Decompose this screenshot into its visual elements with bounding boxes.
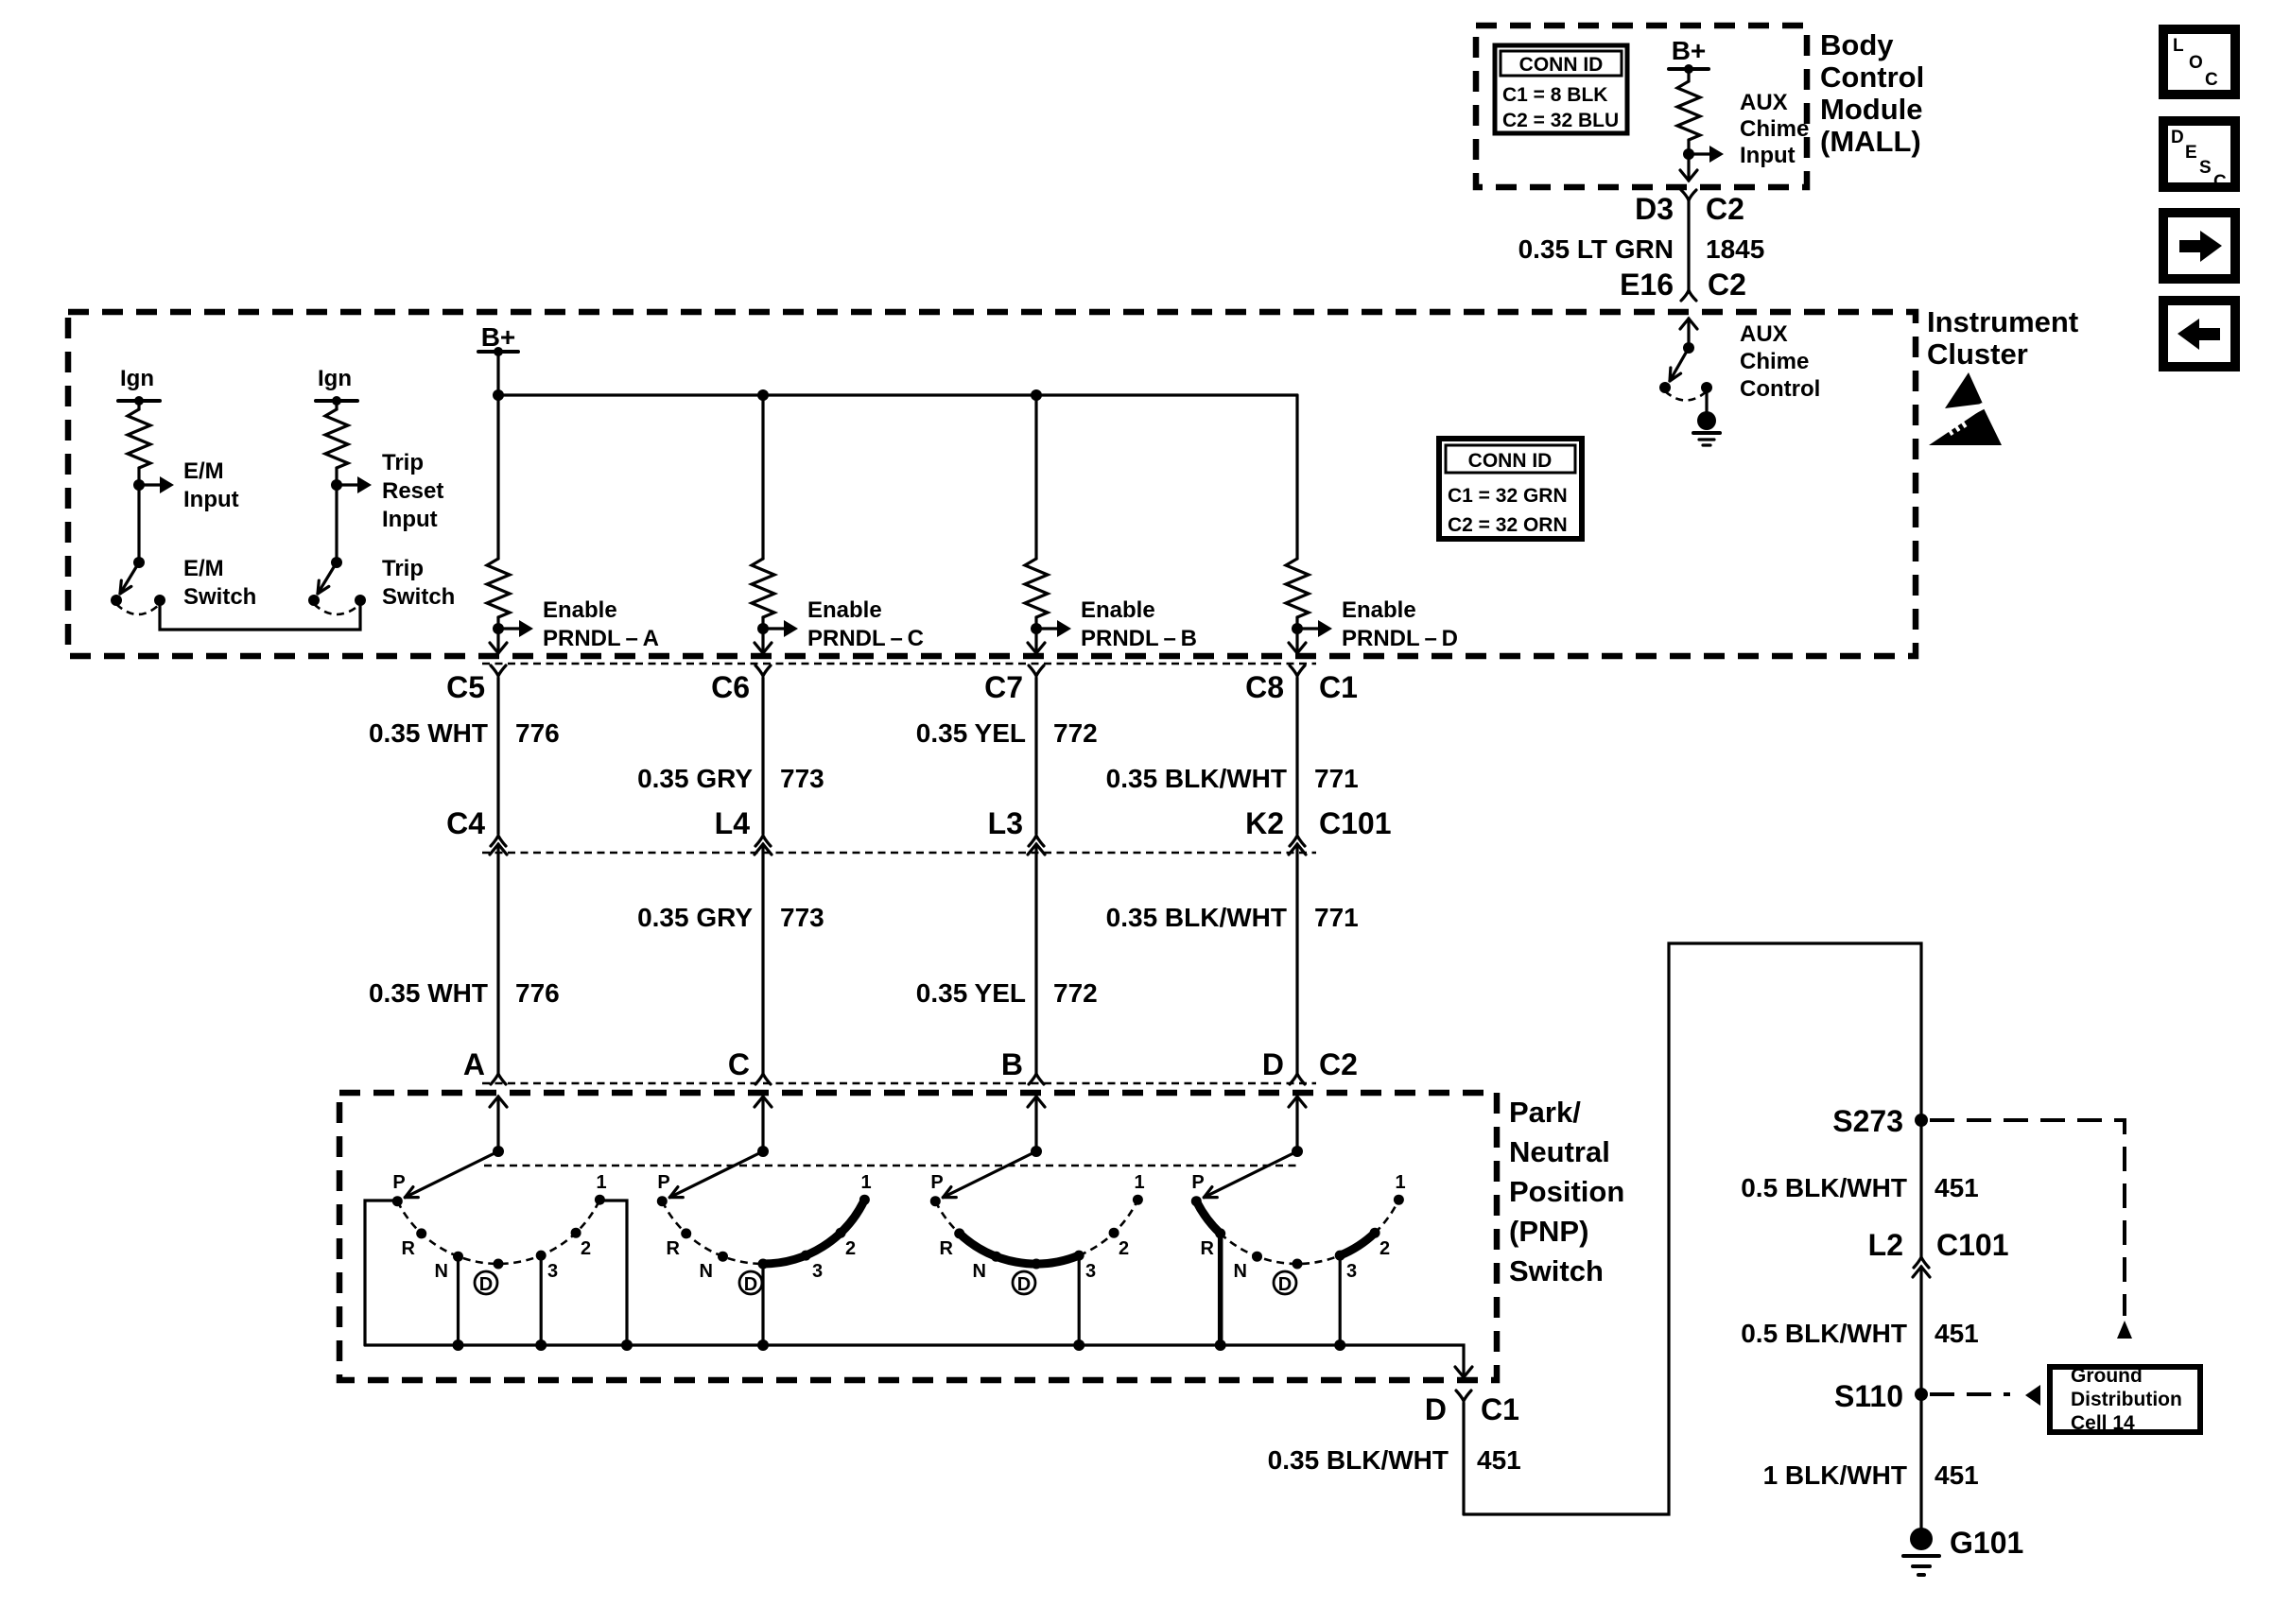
svg-text:C1 = 8 BLK: C1 = 8 BLK: [1502, 84, 1607, 106]
PNP rotary wafer B: input pin and wiper: [943, 1097, 1045, 1198]
connector row C2 (PNP switch): dashed line: [482, 1082, 1316, 1085]
PNP wafer A: P and 1 contact frame wires: [365, 1201, 399, 1345]
connector row C101 (inline): dashed line: [482, 852, 1316, 855]
svg-text:0.35 YEL: 0.35 YEL: [916, 978, 1026, 1008]
svg-text:0.35 YEL: 0.35 YEL: [916, 718, 1026, 748]
ESD sensitivity symbol: [1929, 372, 2002, 445]
wire 773: 0.35 GRY (lower): [637, 844, 824, 1075]
svg-text:N: N: [973, 1261, 986, 1282]
wire: bus drop to PRNDL-A resistor: [496, 395, 499, 559]
resistor: BCM aux chime pull-up: [1677, 81, 1700, 140]
wire 776: 0.35 WHT (lower): [369, 844, 560, 1075]
svg-text:C101: C101: [1936, 1228, 2009, 1262]
svg-text:C: C: [2205, 70, 2218, 90]
wire: wafer B contact 3 to common: [1078, 1255, 1081, 1345]
svg-text:PRNDL – C: PRNDL – C: [807, 626, 924, 651]
resistor: Trip reset pull-up: [325, 409, 348, 468]
svg-text:C1: C1: [1481, 1392, 1519, 1426]
wire: wafer A contact N to common: [457, 1256, 460, 1345]
svg-text:D: D: [1017, 1274, 1031, 1295]
connector pin C4 (C101): [446, 806, 507, 855]
cluster CONN ID table (C1=32 GRN, C2=32 ORN): [1439, 439, 1582, 539]
svg-text:B: B: [1001, 1047, 1023, 1081]
svg-text:K2: K2: [1245, 806, 1284, 840]
svg-text:R: R: [940, 1238, 954, 1259]
resistor: Enable PRNDL-A pull-up: [487, 559, 510, 617]
wire: B+ bus: [498, 393, 1297, 396]
svg-text:Instrument: Instrument: [1927, 305, 2078, 338]
svg-text:C1: C1: [1319, 670, 1358, 704]
wire: PRNDL-B to cluster connector: [1034, 629, 1037, 653]
svg-text:0.35 WHT: 0.35 WHT: [369, 718, 488, 748]
node: resistor output / AUX Chime Input pin: [1683, 148, 1694, 160]
PNP wafer D: contact arc: [1196, 1200, 1398, 1264]
svg-text:E: E: [2185, 143, 2197, 163]
svg-text:R: R: [667, 1238, 681, 1259]
wire 771: 0.35 BLK/WHT (upper): [1106, 678, 1359, 834]
connector pin L4 (C101): [715, 806, 772, 855]
resistor: Enable PRNDL-D pull-up: [1286, 559, 1309, 617]
connector pin C8 (C1): [1245, 665, 1305, 704]
Park/Neutral Position (PNP) Switch dashed box: [339, 1093, 1497, 1380]
svg-text:Trip: Trip: [382, 450, 424, 475]
B+ battery feed (cluster): [478, 322, 518, 395]
svg-text:L3: L3: [988, 806, 1023, 840]
svg-text:(MALL): (MALL): [1820, 125, 1921, 158]
svg-text:R: R: [1201, 1238, 1215, 1259]
AUX Chime Control switch: [1659, 321, 1820, 412]
left-arrow navigation box: [2163, 301, 2235, 367]
wiper pivot dashed link line: [484, 1165, 1297, 1167]
svg-text:1: 1: [860, 1172, 871, 1193]
node: PRNDL-B sense: [1031, 623, 1042, 634]
connector E16/C2 (wire-side fork, arms down): [1681, 290, 1696, 301]
svg-text:PRNDL – B: PRNDL – B: [1081, 626, 1197, 651]
svg-text:Position: Position: [1509, 1175, 1624, 1208]
svg-text:2: 2: [581, 1238, 591, 1259]
resistor: Enable PRNDL-B pull-up: [1025, 559, 1048, 617]
svg-text:773: 773: [780, 903, 824, 932]
svg-text:D: D: [1262, 1047, 1284, 1081]
wire: to Trip switch: [335, 485, 338, 562]
svg-text:771: 771: [1314, 764, 1359, 793]
PNP wafer B: contact arc: [935, 1200, 1137, 1264]
svg-text:Trip: Trip: [382, 556, 424, 581]
svg-text:C: C: [2213, 172, 2227, 192]
node S273: [1832, 1104, 1928, 1138]
svg-text:1: 1: [596, 1172, 606, 1193]
svg-text:Park/: Park/: [1509, 1096, 1581, 1129]
node: wafer D 3 common junction: [1334, 1339, 1345, 1351]
svg-text:771: 771: [1314, 903, 1359, 932]
resistor: E/M input pull-up: [128, 409, 150, 468]
svg-text:Ground: Ground: [2071, 1365, 2143, 1387]
svg-text:O: O: [2189, 53, 2203, 73]
svg-text:0.35 BLK/WHT: 0.35 BLK/WHT: [1106, 764, 1287, 793]
PNP wafer D: contacts P R N D 3 2 1: [1191, 1172, 1406, 1295]
svg-text:2: 2: [845, 1238, 856, 1259]
svg-text:E/M: E/M: [183, 556, 224, 581]
BCM CONN ID table (C1=8 BLK, C2=32 BLU): [1495, 45, 1627, 133]
svg-text:776: 776: [515, 718, 560, 748]
Enable PRNDL-B arrow: [1036, 597, 1197, 651]
svg-text:N: N: [700, 1261, 713, 1282]
node: wafer A N common junction: [453, 1339, 464, 1351]
svg-text:C2 = 32 BLU: C2 = 32 BLU: [1502, 110, 1619, 131]
PNP wafer C: contact arc: [662, 1200, 864, 1264]
svg-text:P: P: [657, 1172, 669, 1193]
label: Instrument Cluster: [1927, 305, 2078, 371]
svg-text:D: D: [479, 1274, 493, 1295]
connector E16/C2 (cluster-side pin, chevron up): [1680, 319, 1697, 329]
wire: wafer C contact D to common: [761, 1264, 764, 1345]
connector pin C5 (C1): [446, 665, 506, 704]
svg-text:D: D: [1425, 1392, 1447, 1426]
resistor: Enable PRNDL-C pull-up: [752, 559, 774, 617]
svg-text:B+: B+: [1672, 36, 1707, 65]
connector pin L3 (C101): [988, 806, 1045, 855]
svg-text:L2: L2: [1868, 1228, 1903, 1262]
svg-text:C2: C2: [1708, 268, 1746, 302]
right-arrow navigation box: [2163, 213, 2235, 279]
connector pin D (PNP C2): [1262, 1047, 1305, 1084]
svg-text:772: 772: [1053, 978, 1098, 1008]
DESC page-reference box: [2163, 121, 2235, 192]
svg-text:Input: Input: [183, 487, 239, 512]
wire 451: 0.35 BLK/WHT from PNP D: [1268, 1403, 1521, 1514]
svg-text:P: P: [1191, 1172, 1204, 1193]
connector pin C (PNP C2): [728, 1047, 771, 1084]
svg-text:N: N: [435, 1261, 448, 1282]
wire 773: 0.35 GRY (upper): [637, 678, 824, 834]
AUX Chime Input arrow: [1689, 90, 1809, 168]
B+ battery feed (BCM): [1669, 36, 1709, 81]
svg-text:2: 2: [1119, 1238, 1129, 1259]
connector D/C1 (PNP output): [1425, 1391, 1519, 1426]
wire 772: 0.35 YEL (upper): [916, 678, 1098, 834]
wire: PRNDL-A to cluster connector: [496, 629, 499, 653]
svg-text:0.5 BLK/WHT: 0.5 BLK/WHT: [1741, 1319, 1907, 1348]
connector pin C6 (C1): [711, 665, 771, 704]
svg-text:Distribution: Distribution: [2071, 1389, 2182, 1410]
svg-text:E/M: E/M: [183, 458, 224, 484]
svg-text:0.35 BLK/WHT: 0.35 BLK/WHT: [1268, 1445, 1449, 1475]
svg-text:451: 451: [1935, 1173, 1979, 1202]
E/M Input arrow: [139, 458, 239, 512]
PNP wafer A: contacts P R N D 3 2 1: [392, 1172, 607, 1295]
PNP wafer B: contacts P R N D 3 2 1: [930, 1172, 1145, 1295]
svg-text:Body: Body: [1820, 28, 1894, 61]
svg-text:1845: 1845: [1706, 234, 1764, 264]
wire: bus drop to PRNDL-B resistor: [1034, 395, 1037, 559]
node S110: [1834, 1379, 1928, 1413]
svg-text:1: 1: [1134, 1172, 1144, 1193]
connector pin B (PNP C2): [1001, 1047, 1044, 1084]
wire 776: 0.35 WHT (upper): [369, 678, 560, 834]
svg-text:0.35 GRY: 0.35 GRY: [637, 764, 753, 793]
connector D3/C2 (BCM side): female fork: [1681, 190, 1696, 200]
svg-text:0.35 WHT: 0.35 WHT: [369, 978, 488, 1008]
connector L2/C101 (inline): [1868, 1228, 2009, 1277]
svg-text:CONN ID: CONN ID: [1468, 450, 1553, 472]
node: wafer A 3 common junction: [535, 1339, 547, 1351]
Ground Distribution Cell 14 reference box: [2050, 1365, 2200, 1434]
wire 771: 0.35 BLK/WHT (lower): [1106, 844, 1359, 1075]
svg-text:D: D: [744, 1274, 757, 1295]
node: PRNDL-C sense: [757, 623, 769, 634]
svg-text:PRNDL – A: PRNDL – A: [543, 626, 659, 651]
svg-text:Module: Module: [1820, 93, 1923, 126]
LOC page-reference box: [2163, 29, 2235, 95]
node: wafer A frame junction: [621, 1339, 633, 1351]
PNP wafer C: contacts P R N D 3 2 1: [657, 1172, 872, 1295]
node: wafer B 3 common junction: [1073, 1339, 1084, 1351]
svg-text:Switch: Switch: [382, 584, 455, 610]
svg-text:C6: C6: [711, 670, 750, 704]
svg-text:Enable: Enable: [543, 597, 617, 623]
svg-text:Ign: Ign: [120, 366, 154, 391]
svg-text:Enable: Enable: [807, 597, 882, 623]
svg-text:772: 772: [1053, 718, 1098, 748]
svg-text:Enable: Enable: [1342, 597, 1416, 623]
svg-text:D: D: [1278, 1274, 1292, 1295]
svg-text:P: P: [930, 1172, 943, 1193]
svg-text:N: N: [1234, 1261, 1247, 1282]
dashed wire: S110 to Ground Distribution: [1930, 1385, 2040, 1406]
wire: route to ground stack: [1464, 943, 1921, 1514]
svg-text:0.35 GRY: 0.35 GRY: [637, 903, 753, 932]
svg-text:Chime: Chime: [1740, 349, 1809, 374]
label: Body Control Module (MALL): [1820, 28, 1924, 158]
svg-text:P: P: [392, 1172, 405, 1193]
Enable PRNDL-A arrow: [498, 597, 659, 651]
wire: bus drop to PRNDL-D resistor: [1295, 395, 1298, 559]
svg-text:Control: Control: [1740, 376, 1820, 402]
svg-text:D3: D3: [1635, 192, 1674, 226]
connector pin C7 (C1): [984, 665, 1044, 704]
Ign feed (Trip branch): [316, 366, 357, 409]
svg-text:773: 773: [780, 764, 824, 793]
ground G101: [1903, 1526, 2023, 1575]
wire: PNP common bus: [365, 1345, 1464, 1377]
Ign feed (E/M branch): [118, 366, 160, 409]
dashed wire: S273 to Ground Distribution: [1930, 1120, 2132, 1339]
svg-text:0.5 BLK/WHT: 0.5 BLK/WHT: [1741, 1173, 1907, 1202]
wire: switch commons joined: [160, 600, 360, 630]
Body Control Module (BCM) dashed box: [1476, 26, 1807, 187]
svg-text:Enable: Enable: [1081, 597, 1155, 623]
svg-text:C2: C2: [1319, 1047, 1358, 1081]
wire: PRNDL-D to cluster connector: [1295, 629, 1298, 653]
svg-text:A: A: [463, 1047, 485, 1081]
svg-text:3: 3: [1346, 1261, 1357, 1282]
PNP wafer A: contact arc: [397, 1200, 599, 1264]
wire 451: 0.5 BLK/WHT (lower): [1741, 1267, 1979, 1394]
Enable PRNDL-D arrow: [1297, 597, 1458, 651]
svg-text:C8: C8: [1245, 670, 1284, 704]
svg-text:C7: C7: [984, 670, 1023, 704]
node: Trip reset input: [331, 479, 342, 491]
node: bus junction B: [1031, 389, 1042, 401]
svg-text:Ign: Ign: [318, 366, 352, 391]
wire: BCM output to connector D3: [1687, 154, 1690, 181]
wire 451: 0.5 BLK/WHT (upper): [1741, 1120, 1979, 1257]
svg-text:Reset: Reset: [382, 478, 443, 504]
node: bus junction C: [757, 389, 769, 401]
svg-text:C2 = 32 ORN: C2 = 32 ORN: [1448, 514, 1568, 536]
svg-text:Neutral: Neutral: [1509, 1135, 1610, 1168]
Trip Reset Input arrow: [337, 450, 443, 532]
svg-text:0.35 BLK/WHT: 0.35 BLK/WHT: [1106, 903, 1287, 932]
wire: wafer D contact R to common: [1218, 1234, 1223, 1345]
svg-text:3: 3: [547, 1261, 558, 1282]
svg-text:Switch: Switch: [1509, 1254, 1604, 1287]
PNP rotary wafer C: input pin and wiper: [669, 1097, 772, 1198]
svg-text:1: 1: [1395, 1172, 1405, 1193]
Instrument Cluster dashed box: [68, 312, 1916, 656]
svg-text:451: 451: [1935, 1319, 1979, 1348]
svg-text:Control: Control: [1820, 60, 1924, 94]
PNP rotary wafer D: input pin and wiper: [1204, 1097, 1306, 1198]
svg-text:Cluster: Cluster: [1927, 337, 2028, 371]
svg-text:E16: E16: [1620, 268, 1674, 302]
ground (AUX chime control): [1693, 411, 1720, 445]
wire: PRNDL-C to cluster connector: [761, 629, 764, 653]
svg-text:C101: C101: [1319, 806, 1392, 840]
svg-text:3: 3: [1085, 1261, 1096, 1282]
connector pin A (PNP C2): [463, 1047, 506, 1084]
node: wafer D R common junction: [1215, 1339, 1226, 1351]
svg-text:(PNP): (PNP): [1509, 1215, 1588, 1248]
connector row C1 (cluster 32-way): dashed line: [482, 663, 1316, 665]
svg-text:R: R: [402, 1238, 416, 1259]
node: E/M input: [133, 479, 145, 491]
svg-text:1 BLK/WHT: 1 BLK/WHT: [1763, 1460, 1907, 1490]
node: PRNDL-A sense: [493, 623, 504, 634]
svg-text:AUX: AUX: [1740, 90, 1788, 115]
svg-text:C5: C5: [446, 670, 485, 704]
svg-text:C: C: [728, 1047, 750, 1081]
node: bus junction A: [493, 389, 504, 401]
svg-text:C1 = 32 GRN: C1 = 32 GRN: [1448, 485, 1568, 507]
svg-text:C4: C4: [446, 806, 485, 840]
svg-text:PRNDL – D: PRNDL – D: [1342, 626, 1458, 651]
node: wafer C D common junction: [757, 1339, 769, 1351]
svg-text:Input: Input: [1740, 143, 1796, 168]
svg-text:CONN ID: CONN ID: [1519, 54, 1604, 76]
svg-text:S273: S273: [1832, 1104, 1903, 1138]
Trip Switch: [308, 556, 455, 614]
svg-text:G101: G101: [1950, 1526, 2023, 1560]
E/M Switch: [111, 556, 256, 614]
svg-text:C2: C2: [1706, 192, 1744, 226]
label: Park/Neutral Position (PNP) Switch: [1509, 1096, 1624, 1287]
svg-text:S: S: [2199, 158, 2212, 178]
wire 1845: 0.35 LT GRN: [1518, 192, 1765, 302]
svg-text:Chime: Chime: [1740, 116, 1809, 142]
PNP rotary wafer A: input pin and wiper: [405, 1097, 507, 1198]
svg-text:2: 2: [1379, 1238, 1390, 1259]
wire: to E/M switch: [137, 485, 140, 562]
wire: wafer A contact 3 to common: [540, 1255, 543, 1345]
svg-text:0.35 LT GRN: 0.35 LT GRN: [1518, 234, 1674, 264]
svg-text:L4: L4: [715, 806, 751, 840]
wire: wafer D contact 3 to common: [1339, 1255, 1342, 1345]
wire: bus drop to PRNDL-C resistor: [761, 395, 764, 559]
svg-text:3: 3: [812, 1261, 823, 1282]
wire 772: 0.35 YEL (lower): [916, 844, 1098, 1075]
svg-text:Switch: Switch: [183, 584, 256, 610]
svg-text:451: 451: [1935, 1460, 1979, 1490]
Enable PRNDL-C arrow: [763, 597, 924, 651]
svg-text:Cell 14: Cell 14: [2071, 1412, 2135, 1434]
svg-text:L: L: [2173, 36, 2184, 56]
svg-text:Input: Input: [382, 507, 438, 532]
connector pin K2 (C101): [1245, 806, 1306, 855]
node: PRNDL-D sense: [1292, 623, 1303, 634]
svg-text:451: 451: [1477, 1445, 1521, 1475]
svg-text:AUX: AUX: [1740, 321, 1788, 347]
wire 451: 1 BLK/WHT: [1763, 1394, 1979, 1529]
svg-text:776: 776: [515, 978, 560, 1008]
svg-text:S110: S110: [1834, 1379, 1903, 1413]
svg-text:D: D: [2171, 128, 2184, 147]
